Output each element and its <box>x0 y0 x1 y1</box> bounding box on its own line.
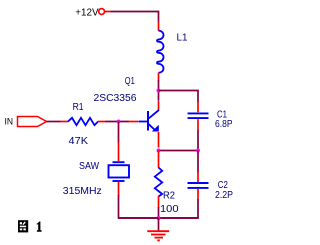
svg-text:6.8P: 6.8P <box>215 119 233 130</box>
node A junction dot (collector / C1 branch) <box>157 89 161 93</box>
wire base node down to SAW <box>118 122 120 143</box>
node base junction dot <box>117 120 121 124</box>
resistor R1 <box>60 102 106 147</box>
figure label 图 1 <box>18 220 42 232</box>
svg-text:R1: R1 <box>73 102 84 113</box>
wire mid node down to C2 top <box>197 151 199 173</box>
wire R2 bottom to ground rail <box>158 207 160 218</box>
svg-text:IN: IN <box>5 116 14 126</box>
wire L1 bottom to collector node <box>158 80 160 101</box>
wire ground rail <box>119 217 199 219</box>
node C2 junction dot <box>196 149 200 153</box>
capacitor C2 <box>188 172 234 201</box>
svg-text:SAW: SAW <box>79 161 99 172</box>
svg-text:47K: 47K <box>69 136 89 147</box>
ground <box>147 218 169 240</box>
transistor Q1 <box>94 76 159 148</box>
svg-text:Q1: Q1 <box>125 76 135 87</box>
svg-text:R2: R2 <box>163 190 175 201</box>
wire SAW bottom to ground rail <box>119 195 159 218</box>
wire C2 bottom to ground rail <box>159 199 199 218</box>
svg-text:2.2P: 2.2P <box>215 190 233 201</box>
resistor R2 <box>155 151 179 215</box>
wire IN port to R1 <box>47 121 61 123</box>
wire collector node to C1 top <box>159 91 199 103</box>
node ground junction dot <box>157 216 161 220</box>
svg-text:2SC3356: 2SC3356 <box>94 93 137 104</box>
node +12V terminal <box>75 7 110 18</box>
wire R1 to base node <box>106 121 129 123</box>
svg-text:315MHz: 315MHz <box>63 186 102 197</box>
svg-text:100: 100 <box>160 204 179 215</box>
wire C1 bottom to mid node <box>197 131 199 151</box>
wire mid connector emitter node to C2 node <box>159 150 199 152</box>
svg-text:+12V: +12V <box>75 7 98 18</box>
port IN <box>5 116 47 126</box>
SAW resonator <box>63 142 129 197</box>
wire +12V to L1 top <box>111 12 159 22</box>
svg-text:L1: L1 <box>177 33 188 44</box>
inductor L1 <box>157 21 188 81</box>
node emitter junction dot <box>157 149 161 153</box>
capacitor C1 <box>188 102 233 132</box>
